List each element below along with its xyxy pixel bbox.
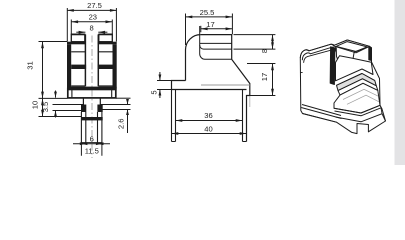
27.5 arrows [67, 9, 74, 12]
tab left [172, 81, 186, 90]
shelf line + arc [200, 45, 232, 59]
2.6 arrows outside [126, 99, 129, 105]
stem bottom [81, 142, 102, 144]
17 top arrows [201, 27, 208, 30]
dim 5 line [159, 72, 161, 98]
slope bottom gray line [201, 84, 250, 86]
arm internal ledge [200, 42, 232, 44]
11.5 arrows inside [81, 142, 87, 145]
lower front zone [334, 83, 380, 113]
slot wall left [84, 34, 86, 86]
left block inner contour [302, 47, 332, 60]
dim 31 line [42, 42, 44, 99]
left wall end black bar [330, 47, 336, 85]
svg-text:25.5: 25.5 [200, 8, 215, 17]
3d body silhouette [300, 40, 385, 134]
collar black right [97, 105, 102, 113]
ext verticals to 11.5 dim [81, 143, 102, 156]
right block top face [333, 40, 370, 53]
dim 2.6 line [127, 99, 129, 133]
left wall black [67, 44, 71, 88]
flange band left [67, 42, 86, 45]
svg-text:36: 36 [204, 111, 212, 120]
left block rounded top contour [300, 44, 336, 58]
25.5 arrows [186, 16, 193, 19]
stem verticals [81, 112, 102, 143]
svg-text:27.5: 27.5 [87, 1, 102, 10]
foot right cap [380, 105, 382, 113]
dim 5 exts [157, 81, 172, 90]
base bottom right ext [116, 97, 131, 99]
shade hatch lines [343, 89, 379, 104]
10 arrows [41, 98, 44, 105]
right side black band [369, 47, 372, 61]
dim 40 line [172, 133, 247, 135]
right gray page band [395, 0, 405, 165]
right block top inset [336, 42, 367, 52]
mid black band right [98, 65, 113, 69]
crossbar black [81, 117, 103, 120]
svg-text:40: 40 [204, 125, 212, 134]
dim 25.5 line [186, 16, 233, 18]
foot band1 bottom [335, 108, 382, 116]
3.5 arrows outside [54, 92, 57, 98]
funnel upper face [336, 56, 374, 81]
cap top edge [71, 33, 113, 35]
interior shelf lines right [98, 52, 112, 86]
dim 8 top [76, 31, 85, 33]
neck verticals [83, 98, 100, 104]
svg-text:6: 6 [90, 135, 94, 144]
svg-text:10: 10 [31, 101, 40, 109]
left step edge + 3.5 top ext [53, 104, 84, 106]
2.6 bottom ext [103, 109, 131, 111]
svg-text:5: 5 [150, 90, 159, 94]
base feet [172, 141, 247, 143]
base inner walls [72, 90, 112, 97]
36 arrows [176, 119, 183, 122]
svg-text:11.5: 11.5 [85, 147, 99, 156]
gray overhang edge [249, 96, 251, 107]
outline: top arm and right profile [201, 35, 250, 142]
31 arrows [41, 42, 44, 49]
left edge step [300, 72, 302, 74]
5 arrows outside [159, 75, 162, 81]
23 arrows [71, 20, 78, 23]
hook line (10 ext) [39, 116, 82, 118]
svg-text:17: 17 [206, 20, 214, 29]
dim 17 right exts [247, 64, 276, 96]
right step edge + 2.6 top ext [100, 104, 130, 106]
cap left box [71, 34, 85, 41]
dim 17 top line [201, 28, 233, 30]
flange band right [98, 42, 117, 45]
cap right box [99, 34, 113, 41]
dim 8 right exts [234, 35, 276, 50]
saddle groove [336, 50, 354, 64]
dim 8 right line [272, 35, 274, 50]
dim 3.5 line [55, 91, 57, 118]
dim 27.5 [67, 8, 116, 42]
17 right arrows [271, 64, 274, 71]
40 arrows [172, 132, 179, 135]
slot wall right [97, 34, 99, 86]
slab bottom edge left [303, 114, 337, 123]
collar black left [81, 105, 86, 113]
base walls [172, 90, 243, 142]
dim 10 line [42, 98, 44, 116]
base top band [67, 87, 117, 91]
rounded corner outer [186, 35, 201, 81]
dim 17 top ext [200, 26, 202, 32]
svg-text:17: 17 [260, 73, 269, 81]
center line [91, 36, 93, 159]
right wall black [113, 44, 117, 88]
svg-text:23: 23 [89, 12, 97, 21]
dim 36 line [176, 120, 243, 122]
mid black band left [71, 65, 86, 69]
svg-text:8: 8 [89, 24, 93, 33]
svg-text:3.5: 3.5 [41, 102, 50, 113]
foot band2 bottom [336, 114, 386, 122]
dim 6 and 11.5 line [73, 143, 110, 145]
dim 31 exts [39, 42, 68, 99]
svg-text:2.6: 2.6 [116, 119, 125, 130]
8 arrows (outside pointing in) [79, 31, 86, 34]
funnel gray band B-C [337, 74, 377, 91]
8 right arrows [271, 35, 274, 42]
body base junction lines [301, 105, 341, 119]
funnel chevron line B [337, 74, 375, 86]
arm bottom + inner arc [200, 26, 232, 49]
foot top polyline [334, 105, 380, 113]
funnel white strip C-D [338, 79, 378, 95]
left block front top edge [304, 50, 333, 63]
dim 23 [71, 20, 112, 35]
saddle inner line [338, 58, 351, 62]
svg-text:8: 8 [260, 49, 269, 53]
3.5 bottom ext [53, 110, 82, 112]
6 arrows outside pointing in [80, 142, 86, 145]
dim 17 right line [272, 64, 274, 96]
interior shelf lines left [71, 52, 85, 86]
svg-text:31: 31 [26, 61, 35, 69]
right block front edge to band [354, 47, 369, 52]
base top [172, 89, 247, 91]
dim 25.5 exts [186, 14, 233, 46]
base plate [68, 89, 116, 98]
